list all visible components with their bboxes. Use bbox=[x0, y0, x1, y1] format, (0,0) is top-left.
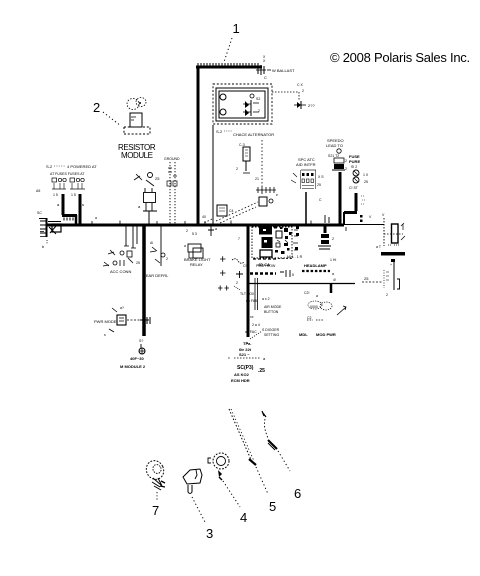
svg-text:0000: 0000 bbox=[310, 305, 318, 309]
svg-text:MDL: MDL bbox=[299, 332, 308, 337]
svg-text:CHACE ALTERNATOR: CHACE ALTERNATOR bbox=[233, 132, 274, 137]
alternator stator coils bbox=[220, 94, 254, 115]
svg-text:6: 6 bbox=[294, 486, 301, 501]
svg-text:2: 2 bbox=[236, 167, 238, 171]
svg-text:7: 7 bbox=[238, 237, 240, 241]
svg-text:REAR DEFRL: REAR DEFRL bbox=[143, 273, 169, 278]
svg-text:1: 1 bbox=[233, 21, 240, 36]
svg-text:A!: A! bbox=[150, 241, 153, 245]
svg-text:C2!: C2! bbox=[304, 291, 309, 295]
svg-text:1 5: 1 5 bbox=[53, 193, 58, 197]
svg-text:2: 2 bbox=[186, 229, 188, 233]
svg-text:a: a bbox=[316, 294, 318, 298]
svg-text:S! 2: S! 2 bbox=[351, 165, 357, 169]
svg-text:a x 2: a x 2 bbox=[262, 297, 270, 301]
svg-text:a: a bbox=[332, 272, 334, 276]
junction dots right bbox=[360, 215, 372, 222]
svg-text:SETTING: SETTING bbox=[264, 333, 279, 337]
svg-text:a?: a? bbox=[120, 306, 124, 310]
svg-text:25: 25 bbox=[136, 261, 140, 265]
boot item 3 bbox=[183, 469, 206, 524]
svg-text:40: 40 bbox=[202, 215, 206, 219]
ticks on bus bbox=[319, 198, 346, 231]
svg-text:ECM HDR: ECM HDR bbox=[231, 378, 250, 383]
wire fuse feed right bbox=[79, 194, 82, 224]
svg-text:HEADLAMP: HEADLAMP bbox=[304, 263, 327, 268]
svg-text:S-2: S-2 bbox=[216, 129, 223, 134]
svg-text:M! 1 . 1 R: M! 1 . 1 R bbox=[287, 255, 303, 259]
svg-text:AID INTFR: AID INTFR bbox=[296, 162, 316, 167]
wire main bus bbox=[46, 223, 384, 227]
svg-text:au FAC: au FAC bbox=[245, 330, 257, 334]
alternator box dashed bbox=[213, 84, 272, 124]
svg-text:2: 2 bbox=[345, 159, 347, 163]
svg-text:V: V bbox=[382, 213, 385, 217]
ground wires dotted bbox=[164, 157, 180, 224]
svg-text:.25: .25 bbox=[258, 368, 265, 374]
svg-text:W BALLAST: W BALLAST bbox=[272, 68, 295, 73]
copyright bbox=[330, 50, 470, 65]
svg-text:40F~30: 40F~30 bbox=[130, 356, 144, 361]
svg-text:S21 T2: S21 T2 bbox=[328, 154, 339, 158]
wire chassis stub bbox=[324, 224, 327, 233]
connector main left bbox=[39, 218, 61, 249]
svg-text:M MODULE 2: M MODULE 2 bbox=[120, 364, 146, 369]
speedometer S1 bbox=[330, 213, 405, 262]
c2 oval cluster bbox=[299, 291, 346, 337]
resistor module R1 bbox=[118, 98, 156, 161]
svg-text:S?: S? bbox=[139, 339, 143, 343]
digger setting bbox=[245, 323, 280, 345]
sensor item 4 bbox=[208, 453, 240, 507]
svg-text:S21 ~: S21 ~ bbox=[239, 352, 250, 357]
svg-text:25: 25 bbox=[364, 276, 369, 281]
svg-text:2 a 4: 2 a 4 bbox=[252, 323, 260, 327]
svg-text:1 5: 1 5 bbox=[71, 193, 76, 197]
svg-text:2: 2 bbox=[258, 109, 260, 113]
svg-text:C4: C4 bbox=[229, 209, 234, 213]
ignition coil C-3 bbox=[236, 143, 250, 173]
svg-text:s: s bbox=[104, 333, 106, 337]
wire 4wd module feed bbox=[142, 224, 146, 336]
fuse pure block bbox=[349, 154, 369, 204]
diode D1 external bbox=[272, 83, 315, 109]
svg-text:PUSH ROW: PUSH ROW bbox=[256, 264, 276, 268]
wire dashed coil to tps bbox=[255, 140, 262, 196]
svg-text:2: 2 bbox=[345, 167, 347, 171]
svg-text:ACC CONN: ACC CONN bbox=[110, 269, 131, 274]
sensor box left bbox=[217, 205, 234, 216]
brake light relay K2 bbox=[184, 224, 217, 267]
svg-text:b: b bbox=[42, 244, 45, 249]
wire speedo lead bbox=[339, 172, 342, 224]
headlamp row bbox=[287, 255, 336, 282]
svg-text:5: 5 bbox=[269, 499, 276, 514]
svg-text:5: 5 bbox=[292, 273, 294, 277]
svg-text:a: a bbox=[95, 216, 97, 220]
wire main harness top (hatched) bbox=[196, 63, 262, 67]
svg-text:3: 3 bbox=[206, 526, 213, 541]
callout 5 bbox=[269, 499, 276, 514]
svg-text:4!: 4! bbox=[333, 278, 336, 282]
svg-text:X S: X S bbox=[318, 175, 324, 179]
svg-text:s: s bbox=[82, 202, 84, 207]
power point outlet bbox=[362, 262, 400, 297]
svg-text:BUTTON: BUTTON bbox=[264, 310, 279, 314]
alternator diodes internal bbox=[243, 97, 260, 116]
svg-text:© 2008 Polaris Sales Inc.: © 2008 Polaris Sales Inc. bbox=[330, 50, 470, 65]
svg-text:2: 2 bbox=[93, 100, 100, 115]
callout 7 bbox=[152, 503, 159, 518]
svg-text:C: C bbox=[264, 75, 267, 80]
svg-text:2: 2 bbox=[236, 281, 238, 285]
svg-text:4 POWERED AT: 4 POWERED AT bbox=[67, 164, 97, 169]
tilt box labels bbox=[240, 278, 258, 310]
node a on fuse feed bbox=[57, 202, 84, 207]
cable item 5 bbox=[229, 409, 268, 494]
svg-text:a T: a T bbox=[376, 245, 382, 249]
relay K1 bbox=[134, 173, 160, 225]
wire fuse feed left (hatched) bbox=[62, 194, 77, 224]
rear defrost bbox=[143, 226, 169, 278]
wire main harness vertical bbox=[197, 66, 200, 226]
svg-text:C X: C X bbox=[297, 83, 304, 87]
callout 2 bbox=[93, 100, 121, 126]
callout 4 bbox=[240, 510, 247, 525]
4wd module terminal bbox=[120, 339, 146, 369]
fuse F2 bbox=[70, 178, 85, 197]
svg-text:A5: A5 bbox=[36, 189, 40, 193]
svg-text:5 3: 5 3 bbox=[192, 232, 197, 236]
svg-text:SC: SC bbox=[37, 211, 42, 215]
svg-text:V: V bbox=[369, 215, 372, 219]
svg-text:SC(P3): SC(P3) bbox=[237, 365, 254, 371]
harness S marks bbox=[232, 237, 244, 290]
callout 6 bbox=[294, 486, 301, 501]
svg-text:S2: S2 bbox=[256, 97, 260, 101]
svg-text:25: 25 bbox=[317, 183, 321, 187]
chassis connector below stub bbox=[318, 234, 334, 249]
svg-text:nu FA5: nu FA5 bbox=[246, 299, 257, 303]
callout 3 bbox=[206, 526, 213, 541]
bus junction ticks bbox=[92, 215, 311, 233]
svg-text:a: a bbox=[57, 202, 60, 207]
svg-text:C: C bbox=[319, 198, 322, 202]
svg-text:S-2: S-2 bbox=[46, 164, 53, 169]
svg-text:X: X bbox=[263, 59, 266, 63]
svg-text:LEAD TO: LEAD TO bbox=[326, 143, 343, 148]
spd atc aid interface bbox=[291, 157, 324, 189]
ECM U1 bbox=[243, 226, 299, 268]
speedo lead connector bbox=[326, 138, 347, 171]
svg-text:x: x bbox=[228, 356, 230, 360]
svg-text:2: 2 bbox=[166, 257, 168, 261]
svg-text:e: e bbox=[276, 193, 278, 197]
wire ECM main feed bbox=[247, 224, 250, 337]
svg-text:2: 2 bbox=[302, 89, 304, 93]
svg-text:MODULE: MODULE bbox=[121, 151, 153, 160]
svg-text:a: a bbox=[215, 227, 217, 231]
svg-text:1 X: 1 X bbox=[363, 173, 369, 177]
svg-text:2??: 2?? bbox=[308, 103, 315, 108]
svg-text:1 Hi: 1 Hi bbox=[330, 258, 336, 262]
cable item 6 bbox=[262, 411, 290, 471]
wire fuse L right bbox=[344, 193, 357, 224]
svg-text:AT FUSES FUSES AT: AT FUSES FUSES AT bbox=[50, 172, 85, 176]
svg-text:RELAY: RELAY bbox=[190, 262, 203, 267]
tps text block bbox=[228, 341, 266, 383]
pwr mode switch bbox=[94, 306, 150, 337]
svg-text:a: a bbox=[184, 244, 186, 248]
svg-text:TLT BOX: TLT BOX bbox=[240, 292, 255, 296]
svg-text:C! ST: C! ST bbox=[349, 186, 359, 190]
svg-text:7: 7 bbox=[152, 503, 159, 518]
svg-text:C!: C! bbox=[243, 264, 247, 268]
fuse bank labels S-2 powered bbox=[36, 164, 97, 215]
regulator top row bbox=[256, 55, 295, 80]
svg-text:GROUND: GROUND bbox=[164, 157, 180, 161]
svg-text:MOD PWR: MOD PWR bbox=[316, 332, 336, 337]
svg-text:TPa.: TPa. bbox=[243, 341, 251, 346]
svg-text:AS KO2: AS KO2 bbox=[234, 372, 250, 377]
svg-text:C2: C2 bbox=[307, 316, 312, 320]
svg-text:PURE: PURE bbox=[349, 159, 360, 164]
wire accessory row bbox=[248, 283, 355, 293]
ring terminal item 7 bbox=[143, 458, 166, 500]
svg-text:S DIGGER: S DIGGER bbox=[262, 328, 280, 332]
svg-text:a: a bbox=[263, 356, 266, 361]
bus junction crosses bbox=[218, 256, 229, 290]
svg-text:+: + bbox=[390, 263, 392, 267]
svg-text:PWR MODE: PWR MODE bbox=[94, 319, 117, 324]
svg-text:C-3: C-3 bbox=[239, 143, 245, 147]
wire alternator feed bbox=[212, 125, 214, 224]
wire dashed diagonals to bus bbox=[204, 202, 258, 223]
alternator label S-2 bbox=[216, 129, 274, 137]
wire spd-atc feed bbox=[305, 192, 307, 224]
svg-text:21: 21 bbox=[255, 177, 259, 181]
acc conn bbox=[103, 226, 140, 274]
tps sensor bbox=[256, 187, 278, 206]
fuse F1 bbox=[52, 178, 66, 197]
push row bbox=[250, 264, 294, 277]
svg-text:25: 25 bbox=[364, 180, 368, 184]
svg-text:2: 2 bbox=[386, 293, 388, 297]
svg-text:AIR MODE: AIR MODE bbox=[264, 305, 282, 309]
callout 1 bbox=[224, 21, 240, 62]
svg-text:2: 2 bbox=[332, 237, 334, 241]
svg-text:a: a bbox=[138, 204, 141, 209]
svg-text:25: 25 bbox=[155, 176, 160, 181]
svg-text:4: 4 bbox=[240, 510, 247, 525]
svg-text:xx: xx bbox=[250, 315, 254, 319]
air mode button bbox=[250, 297, 282, 319]
